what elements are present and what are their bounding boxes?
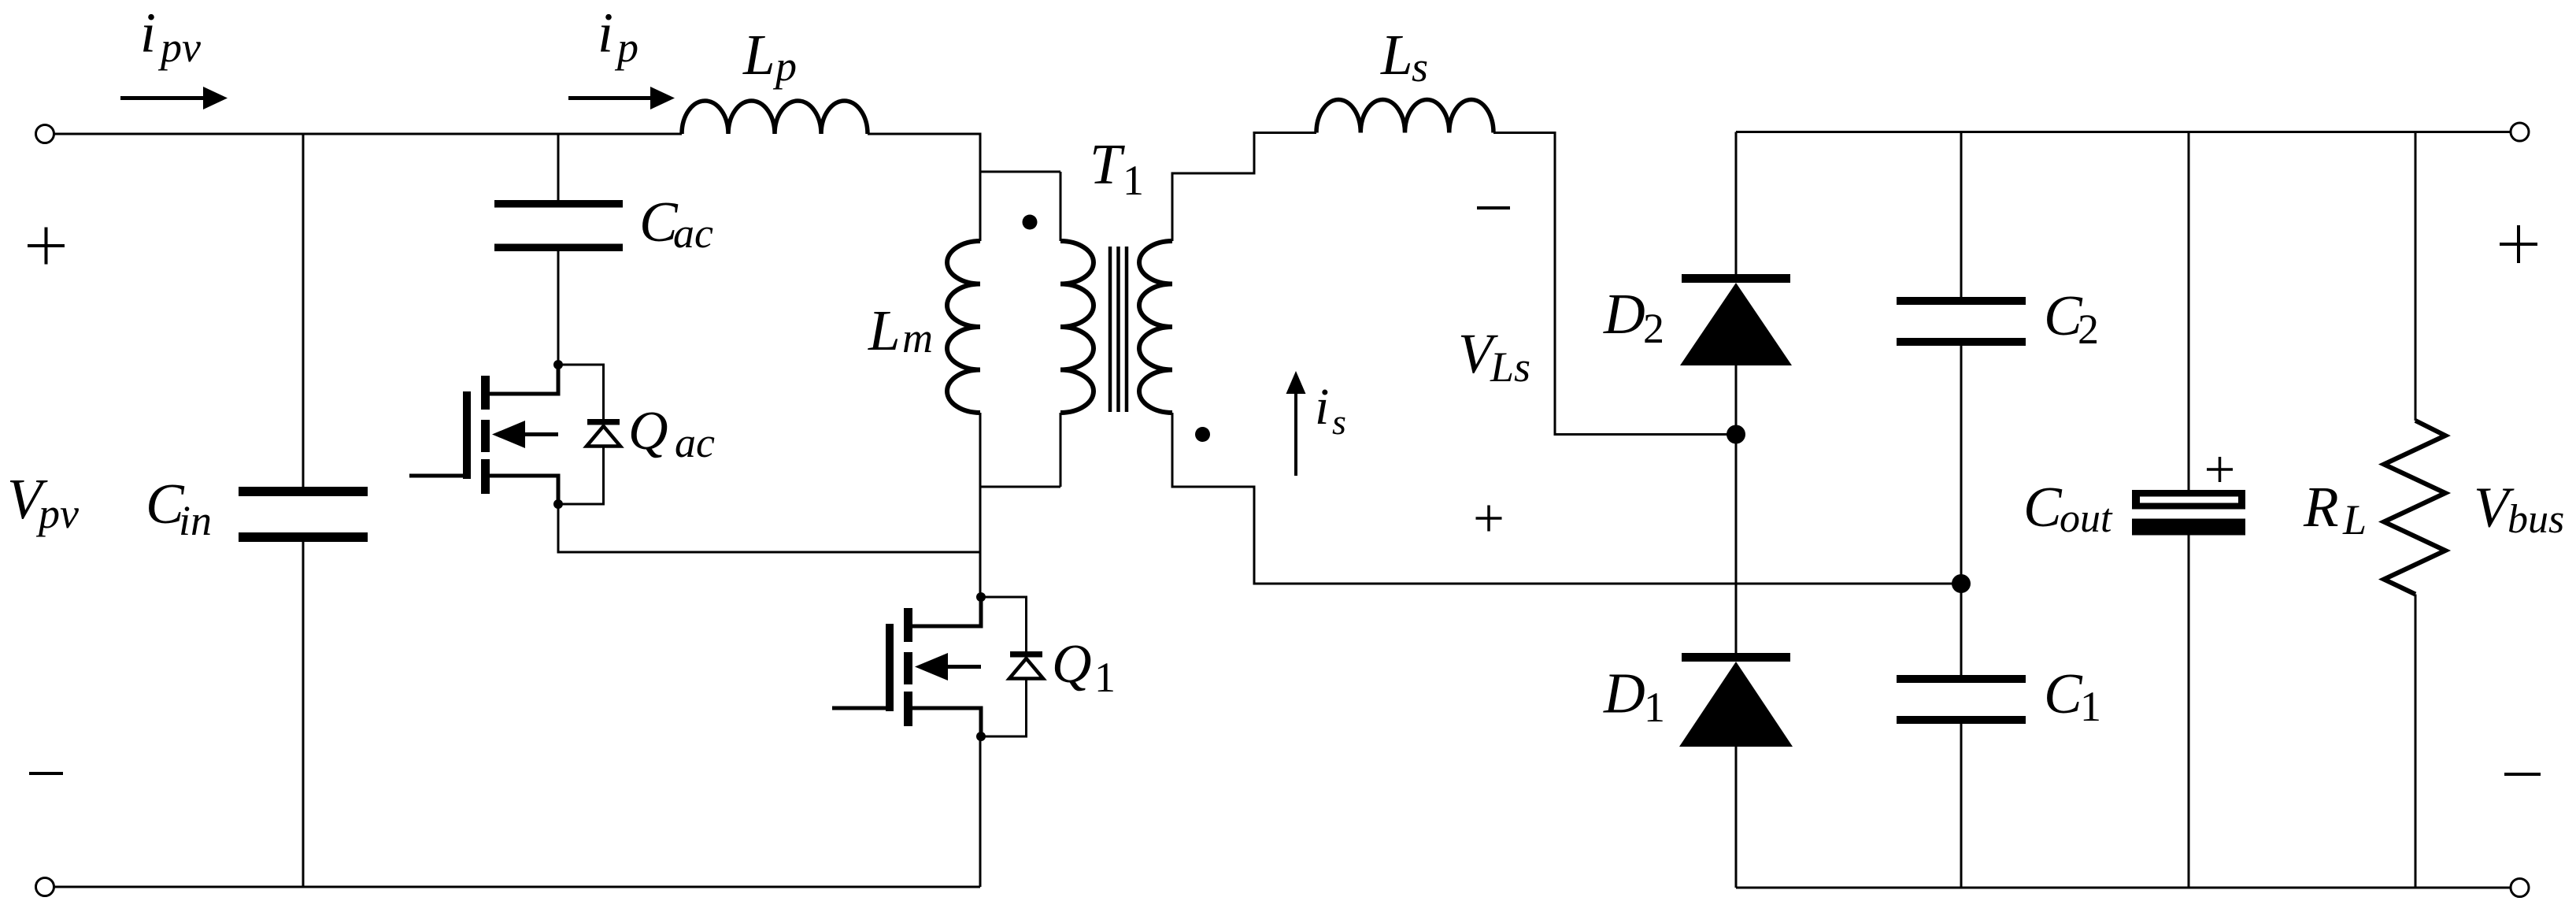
wire Q1 source to bottom rail bbox=[979, 736, 982, 887]
svg-text:s: s bbox=[1412, 43, 1428, 91]
svg-text:1: 1 bbox=[1644, 684, 1665, 731]
svg-text:D: D bbox=[1603, 662, 1645, 725]
wire top rail right bbox=[1736, 131, 2511, 133]
svg-text:pv: pv bbox=[35, 490, 79, 537]
capacitor C2 bbox=[1897, 297, 2026, 346]
label - (input polarity) bbox=[29, 772, 63, 775]
terminal input - (bottom left) bbox=[36, 878, 54, 896]
transistor Q1 body-diode branch wire bbox=[981, 597, 1027, 736]
current arrow i_s bbox=[1286, 371, 1306, 476]
inductor Lp bbox=[682, 101, 868, 134]
terminal input + (top left) bbox=[36, 125, 54, 143]
transistor Qac body arrow bbox=[492, 421, 558, 448]
wire C1 bottom lead bbox=[1960, 724, 1963, 888]
label + (Cout polarity) bbox=[2207, 457, 2233, 482]
diode D1 cathode bar bbox=[1682, 653, 1790, 662]
wire RL bottom lead bbox=[2415, 595, 2417, 888]
svg-text:1: 1 bbox=[1123, 157, 1144, 204]
capacitor Cin bbox=[239, 487, 368, 542]
svg-text:in: in bbox=[179, 497, 212, 544]
inductor Ls bbox=[1316, 100, 1493, 133]
svg-text:pv: pv bbox=[157, 24, 201, 71]
diode D2 triangle bbox=[1680, 283, 1792, 365]
label - (VLs polarity) bbox=[1477, 206, 1510, 210]
wire secondary bottom lead bbox=[1172, 413, 1961, 584]
svg-text:L: L bbox=[1380, 23, 1413, 87]
resistor RL bbox=[2384, 421, 2445, 595]
svg-text:R: R bbox=[2303, 475, 2339, 539]
wire Ls to VLs node bbox=[1493, 133, 1736, 435]
wire D2 anode to D1 cathode bbox=[1735, 365, 1738, 653]
transistor Q1 drain lead bbox=[912, 595, 981, 626]
node VLs / D1-D2 junction dot bbox=[1727, 425, 1745, 444]
wire C2 top lead bbox=[1960, 132, 1963, 299]
svg-text:2: 2 bbox=[1643, 305, 1664, 352]
wire bottom rail right bbox=[1736, 887, 2511, 889]
svg-text:2: 2 bbox=[2078, 306, 2099, 353]
wire Qac source return bbox=[558, 504, 980, 552]
inductor Lm (magnetizing) bbox=[947, 241, 980, 413]
label + (VLs polarity) bbox=[1476, 506, 1502, 532]
svg-text:p: p bbox=[772, 43, 797, 90]
svg-text:i: i bbox=[1315, 378, 1329, 436]
current arrow i_pv bbox=[120, 87, 228, 109]
capacitor Cout positive plate (hollow) bbox=[2132, 490, 2245, 510]
svg-text:i: i bbox=[598, 2, 613, 65]
transistor Qac drain node dot bbox=[553, 360, 563, 369]
transistor Qac body-diode triangle bbox=[587, 426, 620, 447]
svg-text:L: L bbox=[2342, 496, 2367, 543]
svg-text:Q: Q bbox=[1052, 634, 1092, 695]
wire Cin branch upper bbox=[302, 134, 305, 488]
capacitor Cout negative plate bbox=[2132, 519, 2245, 536]
transistor Q1 gate lead bbox=[832, 706, 886, 710]
transformer T1 primary winding bbox=[1060, 241, 1094, 413]
transistor Q1 gate bar bbox=[886, 624, 894, 711]
wire Cac to Qac drain bbox=[557, 250, 560, 365]
wire Cin branch lower bbox=[302, 541, 305, 887]
wire secondary top lead bbox=[1172, 133, 1316, 242]
wire RL top lead bbox=[2415, 132, 2417, 421]
wire top rail Lp to primary corner bbox=[868, 133, 980, 135]
transformer T1 secondary polarity dot bbox=[1195, 427, 1210, 442]
svg-text:C: C bbox=[2023, 475, 2063, 539]
transistor Q1 source lead bbox=[912, 708, 981, 738]
wire bottom rail left bbox=[54, 886, 981, 888]
transistor Q1 body-diode cathode bar bbox=[1010, 651, 1042, 658]
transistor Qac channel segments bbox=[481, 376, 490, 494]
svg-text:bus: bus bbox=[2508, 497, 2564, 542]
wire primary winding top lead bbox=[1060, 172, 1062, 241]
capacitor Cac bbox=[494, 200, 623, 251]
svg-text:i: i bbox=[140, 2, 156, 65]
svg-text:out: out bbox=[2060, 496, 2113, 541]
wire Cout top lead bbox=[2188, 132, 2190, 491]
svg-text:1: 1 bbox=[1094, 654, 1116, 701]
transistor Qac drain lead bbox=[490, 363, 558, 394]
transistor Qac body-diode branch wire bbox=[558, 365, 604, 504]
wire Lm bottom lead bbox=[979, 413, 982, 487]
wire primary winding bottom lead bbox=[1060, 413, 1062, 487]
diode D2 cathode bar bbox=[1682, 274, 1790, 283]
wire primary top step bbox=[980, 171, 1060, 173]
wire C2 bottom to C1 top bbox=[1960, 346, 1963, 676]
transistor Qac source lead bbox=[490, 476, 558, 506]
transformer T1 secondary winding bbox=[1139, 241, 1172, 413]
label + (input polarity) bbox=[28, 228, 65, 265]
terminal output - (bottom right) bbox=[2511, 879, 2529, 897]
diode D1 triangle bbox=[1679, 662, 1793, 747]
capacitor C1 bbox=[1897, 675, 2026, 724]
svg-text:ac: ac bbox=[675, 419, 715, 466]
svg-text:m: m bbox=[902, 314, 933, 362]
svg-text:L: L bbox=[742, 23, 775, 87]
node C1-C2 midpoint junction dot bbox=[1952, 574, 1971, 593]
transformer T1 core bars bbox=[1110, 247, 1127, 412]
transistor Qac body-diode cathode bar bbox=[587, 419, 620, 425]
svg-text:s: s bbox=[1332, 402, 1346, 442]
svg-text:Ls: Ls bbox=[1490, 343, 1530, 391]
wire D2 cathode to top rail bbox=[1735, 132, 1738, 275]
wire center drop to Q1 drain bbox=[979, 487, 982, 597]
transistor Q1 body-diode triangle bbox=[1009, 658, 1043, 679]
wire top rail left bbox=[54, 133, 683, 135]
transistor Qac source node dot bbox=[553, 499, 563, 509]
svg-text:Q: Q bbox=[628, 401, 668, 462]
svg-text:D: D bbox=[1603, 282, 1645, 346]
label - (output polarity) bbox=[2504, 773, 2541, 776]
svg-text:ac: ac bbox=[673, 210, 713, 257]
transistor Qac gate bar bbox=[463, 391, 471, 479]
label + (output polarity) bbox=[2500, 225, 2537, 263]
wire Cout bottom lead bbox=[2188, 535, 2190, 888]
wire primary bottom step bbox=[980, 486, 1060, 488]
wire D1 anode to bottom rail bbox=[1735, 747, 1738, 888]
svg-text:C: C bbox=[2044, 662, 2083, 725]
transformer T1 primary polarity dot bbox=[1023, 215, 1038, 230]
svg-text:p: p bbox=[614, 24, 638, 71]
transistor Qac gate lead bbox=[409, 474, 463, 478]
svg-text:1: 1 bbox=[2080, 683, 2101, 730]
transistor Q1 source node dot bbox=[976, 732, 986, 741]
svg-text:L: L bbox=[868, 299, 901, 362]
transistor Q1 channel segments bbox=[904, 608, 912, 726]
wire Cac branch upper bbox=[557, 134, 560, 201]
wire primary-side left vertical (Lp corner down to Lm top) bbox=[979, 133, 982, 242]
terminal output + (top right) bbox=[2511, 123, 2529, 141]
transistor Q1 body arrow bbox=[915, 653, 981, 681]
svg-text:T: T bbox=[1090, 132, 1125, 196]
transistor Q1 drain node dot bbox=[976, 592, 986, 602]
current arrow i_p bbox=[568, 87, 675, 109]
